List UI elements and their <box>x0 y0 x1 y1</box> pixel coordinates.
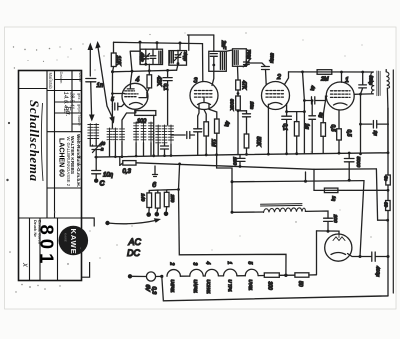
capacitor 100 rect plates <box>324 218 333 231</box>
resistor 47Ka (screen) <box>147 75 152 88</box>
node dot bus2 at 179.6 <box>178 163 181 166</box>
transformer secondary top stub <box>385 70 387 72</box>
dropper return riser <box>179 190 287 276</box>
svg-text:UCH41: UCH41 <box>206 280 211 295</box>
title block outer border <box>19 71 82 281</box>
node dot at 304.4,111.6 <box>303 110 306 113</box>
title block horizontal line above number row <box>19 217 82 219</box>
dial lamp circle <box>146 272 155 281</box>
node dot at 232,212.3 <box>231 211 234 214</box>
tube V2 cathode arc <box>269 103 282 105</box>
coil hatch in box4 <box>234 51 238 65</box>
antenna wire below 1n cap <box>90 82 93 116</box>
svg-text:3: 3 <box>194 78 198 85</box>
under tube V3: wire cathode to resistors <box>198 109 199 116</box>
title block divider right of 801 <box>57 218 59 281</box>
svg-text:100: 100 <box>332 215 338 223</box>
svg-text:1g: 1g <box>304 124 310 130</box>
capacitor 0,1 coupling plates <box>304 97 325 104</box>
coil bank M comb 2 <box>141 122 146 143</box>
tube V4 left grid line <box>112 93 124 95</box>
wire 50 to riser <box>309 274 317 276</box>
capacitor 500u plates <box>359 85 367 94</box>
wire box3 to tube3 plate <box>212 65 214 86</box>
ground tap symbol 6 <box>153 166 158 177</box>
node dot at 328,231.3 <box>327 230 330 233</box>
heater bump 1 <box>167 270 180 277</box>
antenna arrow A2 (diagonal) <box>98 46 113 119</box>
connector box3 to box4 <box>226 50 232 51</box>
tube V5 rectifier circle <box>325 234 352 261</box>
trimmer cap right of box4 <box>243 59 251 67</box>
capacitor 1u series to right bus <box>361 121 389 129</box>
title block divider right of Druck texts <box>39 218 41 281</box>
svg-text:10n: 10n <box>250 102 255 110</box>
right bus lower segment <box>387 211 389 296</box>
wire heater dropper riser <box>179 164 180 190</box>
svg-text:300: 300 <box>267 282 273 291</box>
svg-text:4: 4 <box>136 77 140 84</box>
heater bump 3 <box>205 269 218 276</box>
node dot chain left <box>160 275 163 278</box>
title block row lines in data columns <box>47 80 82 132</box>
antenna arrow A1 <box>89 48 91 76</box>
svg-text:47K: 47K <box>240 81 246 91</box>
svg-text:10K: 10K <box>115 56 121 66</box>
dropper resistor Rb <box>155 193 160 208</box>
stub 305.5 up <box>305 172 307 181</box>
wire cathode resistor down through bus to jog <box>217 133 232 212</box>
wire right end down to rectifier cathode <box>360 181 364 257</box>
svg-text:50K: 50K <box>255 137 261 147</box>
wire between right bus boxes <box>387 185 389 201</box>
capacitor series to tube3 <box>171 132 195 139</box>
AVC horizontal wire <box>113 70 177 72</box>
node dot at 304.4,100.5 <box>303 99 306 102</box>
capacitor 500u plates <box>262 67 270 70</box>
svg-text:U4F41: U4F41 <box>170 280 175 294</box>
tube V1 top wire <box>341 72 343 82</box>
node dot right bus y190 <box>387 189 390 192</box>
capacitor grid coupling plates left of tube4 <box>112 103 124 110</box>
dropper top rail <box>149 190 178 193</box>
node dot dropper top <box>177 188 180 191</box>
node dot bus1 at 360.5 <box>359 152 362 155</box>
node dot at 305.5,181 <box>304 180 307 183</box>
dropper resistor Ra <box>147 193 152 208</box>
wire 50K to bus1 <box>246 148 248 154</box>
node dot AVC at x167.6 <box>166 69 169 72</box>
svg-text:4: 4 <box>205 262 211 265</box>
coil bank B comb 2 <box>113 128 118 141</box>
wire cathode resistor to bus1 <box>338 140 340 153</box>
coil hatch in box3 <box>220 52 224 69</box>
wires bank B to bus1 <box>110 141 123 157</box>
svg-text:UAF41: UAF41 <box>193 280 198 294</box>
wire bus A drop into box1 right <box>156 43 158 50</box>
svg-text:1η: 1η <box>332 196 337 202</box>
coil bank R comb 3 <box>169 125 174 144</box>
node dot bus2 at 240 <box>239 165 242 168</box>
coil bank A comb 1 <box>88 124 93 140</box>
title block divider: Datum column <box>71 71 73 132</box>
svg-text:5: 5 <box>247 262 253 265</box>
svg-text:69: 69 <box>383 202 388 208</box>
node dot bus C at 364.3 <box>361 71 364 74</box>
svg-text:10η: 10η <box>103 173 114 179</box>
tube V3 cathode arc <box>198 103 211 105</box>
svg-text:DC: DC <box>127 248 140 258</box>
title block divider left narrow col bottom section <box>29 218 31 281</box>
node dot bus1 at 286.6 <box>285 152 288 155</box>
resistor 100 under tube4 <box>135 111 156 116</box>
wire choke to cap100 column <box>305 211 328 218</box>
coil bank B comb 1 <box>107 128 112 141</box>
wire grid node up to tube1 grid <box>326 96 328 100</box>
capacitor 4000u series plates <box>360 252 388 261</box>
svg-text:Schallschema: Schallschema <box>27 100 42 182</box>
node dot under 300K <box>237 109 240 112</box>
resistor 1g <box>294 122 299 136</box>
svg-text:5000: 5000 <box>355 157 361 168</box>
resistor 300 chain <box>264 273 279 277</box>
svg-text:LACHEN 60: LACHEN 60 <box>58 138 65 177</box>
wire grid node down to 0,5 resistor <box>323 101 325 123</box>
svg-text:42K: 42K <box>156 76 162 86</box>
svg-text:400μ: 400μ <box>375 266 381 277</box>
wire 10K to AVC node <box>113 67 114 72</box>
junction on bus A at x180 <box>179 42 182 45</box>
node dot chain right <box>284 274 287 277</box>
tube V2 internal grids dashed <box>266 91 285 98</box>
svg-text:0,5: 0,5 <box>346 130 352 137</box>
tube V3 circle <box>190 82 218 110</box>
svg-text:250: 250 <box>170 194 175 203</box>
node dot bus1 at 206 <box>205 154 208 157</box>
svg-text:40μμ: 40μμ <box>183 52 188 62</box>
switch wiper terminal dot <box>105 221 109 225</box>
svg-text:1μ: 1μ <box>373 131 378 137</box>
choke core bar <box>261 204 303 206</box>
node dot bus1 at 388 <box>387 151 390 154</box>
svg-text:50: 50 <box>297 281 303 287</box>
wires bank M to bus1 <box>136 143 151 156</box>
underline of Schallschema <box>41 103 43 181</box>
wire 0,5 to bus1 <box>322 136 324 153</box>
node dot AVC wire at tube4 stub <box>131 70 134 73</box>
output transformer core lines <box>377 71 380 96</box>
node dot at 286.6,111.6 <box>285 110 288 113</box>
wire bus A into box1 <box>139 42 141 64</box>
node dot bus C at 341.5 <box>340 71 343 74</box>
node dot bus1 at 122 <box>121 155 124 158</box>
wire lamp to chain node <box>156 275 162 277</box>
resistor 0,5 cathode <box>337 129 342 140</box>
capacitor C terminal 10n <box>92 157 101 179</box>
tube V5 cathode right wire <box>348 254 361 257</box>
wire bus C down to 500u cap <box>362 72 364 85</box>
node dot bus1 at 216.6 <box>215 153 218 156</box>
dropper resistor Rc <box>164 192 169 206</box>
node dot bus C at 302.5 <box>301 71 304 74</box>
svg-text:U TP1: U TP1 <box>228 280 233 293</box>
dropper stud dot c <box>164 212 169 217</box>
node dot under trimmer <box>245 64 248 67</box>
node dot at 312.2,100.5 <box>311 99 314 102</box>
dropper stud dot b <box>155 212 160 217</box>
node dot plate junction <box>359 93 362 96</box>
wire tube3 stub to 1M <box>204 110 206 122</box>
wire 300K to bus1 <box>237 110 239 155</box>
plate column down to bus1 <box>360 94 362 154</box>
resistor 300K <box>236 96 241 110</box>
svg-text:Datum: Datum <box>59 72 64 84</box>
bus B top <box>188 34 214 36</box>
heater bump 4 <box>223 269 236 276</box>
tube V1 internal grids dashed <box>331 91 351 98</box>
tube V2 circle <box>262 82 290 110</box>
svg-text:W. GALLBRUNNGASSE 2: W. GALLBRUNNGASSE 2 <box>66 137 71 187</box>
node dot under 10K <box>111 70 114 73</box>
wire box1 bottom to 47Ka <box>148 64 150 75</box>
svg-text:gepr.: gepr. <box>77 104 82 113</box>
resistor 0,3 inline bus2 <box>123 161 136 166</box>
schematic right border <box>392 70 394 293</box>
plate node wire to primary bottom <box>361 93 374 95</box>
svg-text:4η: 4η <box>310 86 315 92</box>
tube V5 cathode arc <box>331 253 346 255</box>
svg-text:gez.: gez. <box>77 93 82 101</box>
svg-text:40: 40 <box>100 141 106 146</box>
node dot bus1 at 296.7 <box>295 152 298 155</box>
wire left column to bank B <box>111 107 113 129</box>
link 300K node to 5000 cap line <box>238 110 247 112</box>
resistor 10K <box>111 53 116 67</box>
svg-text:1: 1 <box>345 77 349 84</box>
wire tube2 left-bottom to bus1 <box>267 104 269 154</box>
resistor 50 chain <box>295 273 309 277</box>
title block divider: left column right edge <box>46 71 48 219</box>
wire 47Ka into tube V4 <box>147 88 149 93</box>
wire 500u cap to tube2 top <box>265 70 268 85</box>
wire trimmer node to 500u cap <box>246 63 265 66</box>
wire box2 trimmer to AVC line <box>177 64 178 70</box>
capacitor under tube3 plates <box>194 116 202 155</box>
dropper stud dot a <box>146 212 151 217</box>
svg-text:2nF: 2nF <box>220 40 226 51</box>
node dot on AVC wire at 47K top <box>148 69 151 72</box>
wire rect top row <box>317 231 340 234</box>
resistor 47K <box>236 80 241 90</box>
svg-text:2M: 2M <box>320 77 329 83</box>
svg-text:Sg.: Sg. <box>64 106 71 117</box>
heater wire 1-2 <box>180 275 189 277</box>
svg-text:UY41: UY41 <box>248 280 253 291</box>
coil bank A comb 2 <box>94 124 99 140</box>
node dot at 349.2,180.3 <box>348 179 351 182</box>
capacitor 5000 under bus1 <box>344 153 354 180</box>
svg-text:3c: 3c <box>384 176 389 182</box>
tube V4 cathode arc <box>130 103 143 105</box>
wire choke feed y212 <box>232 211 264 213</box>
node dot bus1 at 268.4 <box>267 153 270 156</box>
coil bank R comb 1 <box>156 125 161 144</box>
heater chain terminal dot <box>128 274 132 278</box>
wire tube2 right-bottom with 0,1 cap <box>282 104 292 154</box>
wire bus A into box2 <box>179 43 181 50</box>
wire bus A corner down to tube3 top <box>202 44 204 81</box>
svg-text:2: 2 <box>169 262 175 266</box>
capacitor 2nF plates <box>210 54 217 65</box>
svg-text:100: 100 <box>232 157 238 165</box>
coil bank M comb 3 <box>149 122 154 143</box>
wire bank A comb1 to bus1 <box>90 140 92 146</box>
switch wiper arm with arrow <box>108 220 157 224</box>
node dot bus1 at 153.7 <box>152 154 155 157</box>
coil bank B comb 3 <box>120 128 125 141</box>
output transformer primary coil <box>371 72 375 94</box>
wire 300 to node <box>279 274 295 276</box>
wire AVC node down left column <box>111 72 113 105</box>
svg-text:Name: Name <box>77 115 82 126</box>
svg-text:5: 5 <box>111 97 114 103</box>
capacitor 1c under bank R <box>161 144 169 156</box>
node dot at 232,181.8 <box>231 180 234 183</box>
wire between 47K and 300K <box>237 90 239 96</box>
capacitor 0,1 at gridline <box>163 70 172 125</box>
arrowhead down to coil bank A <box>89 115 95 122</box>
trimmer arrow box2 <box>175 53 182 61</box>
dropping resistor box r2 right bus <box>386 201 391 211</box>
heater wire 2-3 <box>203 275 205 277</box>
wire field line y181 <box>232 181 364 182</box>
bus2 lower bus <box>120 163 377 170</box>
wire terminal to lamp <box>130 275 147 277</box>
node dot bus1 at 171 <box>170 154 173 157</box>
svg-text:AC: AC <box>128 237 142 247</box>
heater wire 3-4 <box>218 275 223 277</box>
heater return bottom line <box>163 296 388 301</box>
svg-text:0,1: 0,1 <box>162 84 168 91</box>
capacitor 5000 plates on line B <box>243 111 251 134</box>
capacitor 1n plates <box>86 79 96 82</box>
wire bus A down to 10K <box>113 42 115 53</box>
sheet frame remnant hook right of title block <box>82 218 95 277</box>
tube V4 bottom stub <box>135 110 137 113</box>
svg-text:300K: 300K <box>229 99 235 111</box>
tube V1 output circle <box>326 82 354 110</box>
osc trimmer box2 <box>169 51 187 66</box>
capacitor 100 between buses <box>235 155 245 167</box>
wire plate feed from tube2 column <box>287 111 305 113</box>
svg-text:2: 2 <box>276 74 281 81</box>
svg-text:1n: 1n <box>97 83 104 89</box>
KAWE logo circle <box>59 226 89 256</box>
node dot at 93 <box>237 92 240 95</box>
tube V4 internal grids dashed <box>125 91 138 97</box>
svg-text:1: 1 <box>226 262 232 265</box>
dropper stud wires <box>149 207 167 213</box>
wire box2 top to bus B <box>188 35 190 50</box>
svg-text:100: 100 <box>137 119 147 125</box>
svg-text:0,3: 0,3 <box>151 287 157 296</box>
node dot bus1 at 164.5 <box>163 154 166 157</box>
svg-text:0,1: 0,1 <box>281 124 287 131</box>
heater return riser left <box>162 276 164 299</box>
node dot right bus at 220 <box>386 219 389 222</box>
wire to resistor 1g <box>296 112 298 122</box>
resistor 1q mains <box>324 188 338 193</box>
wire bank A comb2 down <box>95 140 97 146</box>
wire box4 down <box>237 66 240 80</box>
bus C (B+ line top right) <box>289 71 374 73</box>
node dot at 360.5,124.1 <box>359 123 362 126</box>
svg-text:6: 6 <box>152 182 156 189</box>
tube V4 top grid feed from box1 <box>127 51 140 89</box>
top bus A <box>114 42 203 43</box>
svg-text:Name: Name <box>78 72 83 83</box>
trimmer C plates in box1 <box>143 49 149 64</box>
wire B+ column x304 <box>303 72 305 154</box>
mains line y190 with resistor <box>314 189 388 191</box>
IF box3 <box>209 51 227 71</box>
wire bank R comb3 to bus1 <box>170 144 172 156</box>
node dot trimmer bottom box2 <box>177 62 180 65</box>
junction on bus A at x140 <box>139 41 142 44</box>
tube V1 cathode wire <box>338 110 340 129</box>
coil hatch in box2 <box>170 52 174 64</box>
coil bank R comb 2 <box>162 125 167 144</box>
node dot in box3 <box>212 64 215 67</box>
filter choke squiggle coil <box>264 208 306 213</box>
node dot bus1 at 349.2 <box>348 152 351 155</box>
wire resistor100 right to bus1 <box>153 115 155 155</box>
resistor 50K <box>244 134 249 148</box>
tube V3 internal grids dashed <box>195 91 214 98</box>
tube V1 cathode arc <box>334 103 348 105</box>
wire resistor100 left end to bank B <box>122 113 135 128</box>
svg-text:Welt-Rundfunk-G.m.b.H.: Welt-Rundfunk-G.m.b.H. <box>76 134 81 187</box>
title block divider under empty top cell <box>19 88 48 90</box>
node dot bus1 at 96.2 <box>95 156 98 159</box>
junction on bus A at x157 <box>156 41 159 44</box>
svg-text:Maßstab: Maßstab <box>48 73 53 90</box>
coil bank M comb 1 <box>134 122 139 143</box>
svg-text:500μ: 500μ <box>269 53 274 64</box>
bus2 riser from bus1 <box>119 157 121 166</box>
trimmer arrow box1 <box>142 54 149 62</box>
resistor 4n cathode <box>215 119 220 133</box>
node dot right bus bottom <box>387 255 390 258</box>
dropping resistor box r1 right bus <box>386 175 391 185</box>
svg-text:,,,: ,,, <box>80 247 84 250</box>
heater wire 4-5 <box>237 275 245 277</box>
wire 1M to bus1 <box>205 136 207 155</box>
capacitor2 in box1 <box>150 49 156 64</box>
wire tube3 cathode right to 4n resistor <box>209 109 217 119</box>
terminal dot C <box>94 179 98 183</box>
tube V4 plate bracket <box>139 92 147 97</box>
heater bump 5 <box>245 269 258 275</box>
right vertical bus x388 <box>387 108 389 175</box>
grid leak cap column <box>309 101 316 154</box>
tube V4 mixer circle <box>122 83 148 109</box>
svg-text:40μμ: 40μμ <box>140 53 145 63</box>
bus1 main ground bus <box>95 153 388 157</box>
svg-text:KAWE: KAWE <box>64 233 68 243</box>
tube V2 anode wire to bus C <box>285 72 289 85</box>
resistor 0,5 grid <box>321 123 326 137</box>
